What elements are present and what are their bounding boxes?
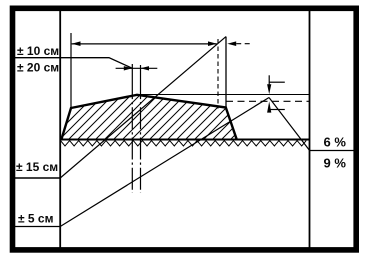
right arrowhead of axis dimension [141, 66, 150, 70]
left arrowhead of axis dimension [124, 66, 133, 70]
leader from ±5 divider to slope apex [60, 98, 269, 227]
left extension line of width dimension [70, 33, 72, 108]
svg-text:6 %: 6 % [324, 135, 347, 150]
dashed right extension line (design edge) [217, 39, 219, 109]
axis centerline right (dash-dot) [140, 65, 142, 80]
right column vertical line [309, 11, 311, 248]
divider between 6% and 9% [310, 150, 357, 152]
down arrow at design level [268, 75, 270, 86]
left column vertical line [59, 11, 61, 248]
solid right edge extension line [225, 37, 227, 108]
axis centerline left (dash-dot) [131, 64, 133, 80]
leader from ±15 divider to top of right edge line [60, 37, 226, 178]
svg-text:9 %: 9 % [324, 156, 347, 171]
up arrow at tolerance level [267, 101, 271, 112]
main width dimension line [72, 43, 217, 45]
external arrow at right edge tolerance [227, 41, 236, 46]
divider under ±15 label [15, 177, 61, 179]
svg-text:± 10 см: ± 10 см [17, 44, 59, 58]
design level thin line from crown to right column [137, 94, 310, 96]
svg-text:± 15 см: ± 15 см [16, 160, 58, 174]
svg-text:± 20 см: ± 20 см [17, 60, 59, 74]
slope apex right line to 6%/9% divider [269, 98, 310, 151]
embankment outline [62, 95, 237, 139]
axis offset dimension line [116, 67, 158, 69]
dashed tolerance level line [226, 100, 310, 102]
ground hatch zigzag [61, 141, 307, 146]
left arrowhead of width dimension [72, 41, 81, 46]
right arrowhead of width dimension [208, 41, 217, 46]
leader from ±10/±20 boxes to axis dimension [15, 58, 132, 69]
ground line [60, 139, 309, 141]
svg-text:± 5 см: ± 5 см [18, 211, 54, 225]
divider under ±5 label [15, 226, 61, 228]
